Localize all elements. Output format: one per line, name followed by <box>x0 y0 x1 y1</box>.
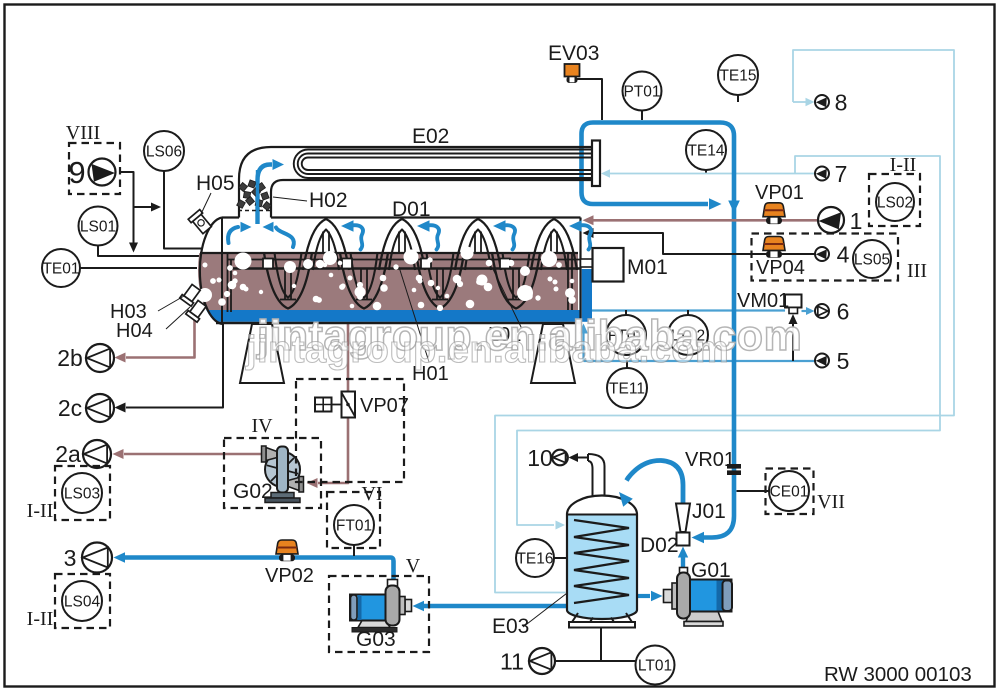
svg-text:11: 11 <box>500 649 524 675</box>
instrument TE15 <box>718 55 758 95</box>
ejector J01 cone <box>676 504 690 533</box>
svg-text:E03: E03 <box>492 615 529 638</box>
pump 1 <box>818 207 844 233</box>
svg-text:CE01: CE01 <box>770 484 809 501</box>
valve VP01 <box>763 203 785 224</box>
instrument TE14 <box>686 130 726 170</box>
svg-text:2a: 2a <box>55 441 81 467</box>
H02 spray feed line (blue) <box>256 170 259 224</box>
svg-text:I-II: I-II <box>890 154 917 176</box>
svg-text:H02: H02 <box>309 189 348 212</box>
wire VM01 drop line with up arrow <box>792 323 794 361</box>
vapor arrow to duct (left) <box>263 222 274 232</box>
wire cyan loop A (TE15/point8 circuit) <box>495 50 954 593</box>
instrument FT01 <box>334 505 374 545</box>
vessel D02 fill <box>567 515 637 620</box>
E02 tube sheet <box>592 141 600 187</box>
svg-text:7: 7 <box>835 161 848 187</box>
svg-text:E02: E02 <box>412 125 449 148</box>
pump G01 <box>664 568 733 627</box>
svg-text:M01: M01 <box>627 256 668 279</box>
svg-text:H04: H04 <box>116 320 153 342</box>
pipe G03 discharge to pump 3 via VP02/FT01 <box>125 558 394 581</box>
instrument LS04 <box>62 581 102 621</box>
wire jacket riser with up arrow <box>582 333 584 361</box>
arrowhead into J01 <box>692 532 705 543</box>
vessel D01 right end <box>579 218 581 324</box>
svg-text:IV: IV <box>251 415 273 437</box>
instrument LT01 <box>636 646 675 685</box>
pipe VP01 feed into vessel (brown) <box>592 219 818 222</box>
svg-text:VP04: VP04 <box>756 257 805 279</box>
wire pump 2c drain from vessel <box>126 324 223 408</box>
wire pump 11 to LT01 <box>555 660 635 662</box>
group VI box <box>327 492 380 548</box>
svg-text:D02: D02 <box>640 534 679 557</box>
svg-text:2b: 2b <box>57 345 83 371</box>
svg-text:LS05: LS05 <box>854 252 890 269</box>
svg-text:TE01: TE01 <box>42 261 79 278</box>
arrowhead down main pipe <box>728 201 740 214</box>
svg-text:I-II: I-II <box>27 500 54 522</box>
wire pump 9 (VIII) feed line <box>120 172 134 246</box>
valve EV03 <box>565 64 580 77</box>
point 8 <box>815 95 829 109</box>
screw shaft <box>228 267 581 270</box>
svg-text:VR01: VR01 <box>685 449 735 471</box>
wire PT01 stem <box>641 111 643 121</box>
svg-text:G02: G02 <box>233 480 273 503</box>
bubbles in slurry <box>235 253 252 270</box>
vessel D01 bottom edge <box>216 322 581 324</box>
wire FT02 stem <box>625 310 627 315</box>
wire TE15 stem <box>737 95 739 102</box>
svg-text:TE11: TE11 <box>609 381 645 398</box>
svg-text:6: 6 <box>837 299 850 325</box>
svg-text:8: 8 <box>835 90 848 116</box>
wire LS01 stem to vessel <box>98 246 200 257</box>
damper VM01 <box>785 295 802 308</box>
pump 2b <box>86 344 114 372</box>
wire cyan line to point 7 <box>609 173 815 175</box>
svg-text:LS01: LS01 <box>80 219 116 236</box>
svg-text:TE16: TE16 <box>516 551 553 568</box>
pipe vessel to pump 2b via H04 (brown) <box>126 310 195 358</box>
svg-text:4: 4 <box>837 242 850 268</box>
group VIII box <box>69 143 120 194</box>
point 4 <box>815 247 829 261</box>
instrument LT12 <box>668 315 708 355</box>
wire D02 vent to point 10 <box>573 457 588 459</box>
pipe E02 heating loop supply <box>593 123 734 538</box>
valve VP02 <box>276 540 298 561</box>
wire M01 control line into vessel <box>592 233 815 254</box>
group III box <box>752 234 899 281</box>
svg-text:G03: G03 <box>356 628 396 651</box>
motor M01 <box>593 248 624 282</box>
instrument LS05 <box>853 240 891 278</box>
instrument TE01 <box>42 249 80 287</box>
pipe G02 to pump 2a (brown) <box>124 453 261 456</box>
vapor arrow to duct (right) <box>241 222 252 232</box>
group I-II box (LS02) <box>869 174 920 226</box>
svg-text:VII: VII <box>817 491 845 513</box>
motor M01 shaft <box>581 259 593 267</box>
wire jacket outlet line (FT02/LT12 row top) <box>588 309 785 311</box>
svg-text:J01: J01 <box>692 500 726 523</box>
vessel D01 inner wall right <box>567 253 569 310</box>
svg-text:2c: 2c <box>58 395 82 421</box>
vessel D01 jacket right band <box>582 269 592 322</box>
vessel D01 body fill <box>198 253 578 310</box>
wire EV03 connection <box>575 79 602 120</box>
svg-text:VI: VI <box>361 483 382 505</box>
svg-text:LS02: LS02 <box>877 195 913 212</box>
group VII box <box>766 469 814 515</box>
screw bearing blocks <box>263 259 273 269</box>
instrument TE11 <box>607 368 647 408</box>
svg-text:5: 5 <box>837 348 850 374</box>
svg-text:1: 1 <box>850 208 863 234</box>
svg-text:9: 9 <box>68 155 85 190</box>
instrument LS06 <box>144 131 184 171</box>
svg-text:H05: H05 <box>196 172 235 195</box>
svg-text:RW 3000 00103: RW 3000 00103 <box>824 663 972 686</box>
svg-text:3: 3 <box>64 545 77 571</box>
vessel D01 liquid surface <box>200 252 578 254</box>
vessel D02 vent pipe <box>588 461 593 496</box>
LS03 box <box>55 466 110 520</box>
svg-text:III: III <box>907 260 927 282</box>
svg-text:VP07: VP07 <box>360 395 409 417</box>
nozzle H05 <box>188 210 213 235</box>
instrument LS02 <box>876 183 914 221</box>
VP07 box <box>296 379 404 482</box>
wire jacket line to point 5 <box>584 360 816 362</box>
wire LT12 stem <box>687 310 689 315</box>
wire cyan arrow to point 8 <box>793 101 806 103</box>
E02 U-tubes <box>294 150 592 179</box>
pipe vessel drain through VP07 to G02 (brown) <box>347 324 350 392</box>
pump 3 <box>82 543 112 573</box>
pump 9 <box>89 159 116 186</box>
instrument PT01 <box>623 72 662 111</box>
svg-text:I-II: I-II <box>27 608 54 630</box>
svg-text:LS03: LS03 <box>64 486 100 503</box>
vessel D02 dome <box>567 496 637 515</box>
pipe G01 discharge to J01 <box>681 557 685 568</box>
svg-text:G01: G01 <box>691 559 731 582</box>
wire TE14 stem <box>705 170 707 173</box>
vessel D01 jacket bottom band <box>206 310 580 322</box>
wire VM01 to point 6 <box>802 310 808 312</box>
pipe D02 recirculation loop to tank <box>627 460 684 505</box>
group IV box <box>224 438 321 508</box>
restrictor VR01 <box>727 464 741 469</box>
vapor riser arrow into E02 duct <box>258 165 273 225</box>
leader lines <box>201 193 211 214</box>
svg-text:LS06: LS06 <box>146 144 182 161</box>
valve VP07 <box>342 392 356 418</box>
pipe E03 coil to G03 suction <box>421 604 566 609</box>
point 6 <box>815 304 829 318</box>
svg-text:VP01: VP01 <box>755 182 804 204</box>
cyan arrow into D02 <box>556 521 566 530</box>
vessel D01 left cap outline <box>200 218 222 325</box>
H02 spray nozzle cluster <box>237 180 272 211</box>
valve VP04 <box>763 237 785 258</box>
instrument FT02 <box>606 315 646 355</box>
point 7 <box>815 167 829 181</box>
nozzle H04 <box>186 299 208 322</box>
vessel D01 top edge <box>222 216 239 218</box>
point 5 <box>815 354 829 368</box>
svg-text:10: 10 <box>527 445 553 471</box>
pump G02 <box>262 446 304 503</box>
svg-text:VIII: VIII <box>66 122 100 144</box>
vapor flow arrows in vessel freeboard <box>351 225 363 249</box>
wire TE11 stem <box>626 361 628 369</box>
svg-text:LT01: LT01 <box>638 658 672 675</box>
instrument TE16 <box>516 539 554 577</box>
instrument LS03 <box>62 473 102 513</box>
svg-text:TE14: TE14 <box>687 143 724 160</box>
point 10 <box>552 450 568 466</box>
vessel D02 outline <box>567 515 637 620</box>
wire TE01 stem to vessel <box>80 267 197 269</box>
svg-text:D01: D01 <box>392 198 431 221</box>
vessel D01 tangent line <box>221 218 223 325</box>
svg-text:PT01: PT01 <box>623 84 660 101</box>
pump G03 <box>350 580 412 633</box>
LS04 box <box>55 574 110 628</box>
svg-text:jintagroup.en.alibaba.com: jintagroup.en.alibaba.com <box>245 329 729 371</box>
instrument CE01 <box>769 471 809 511</box>
arrowhead return joins main <box>709 198 722 210</box>
screw conveyor flights <box>303 219 349 270</box>
pump 2c <box>86 394 114 422</box>
svg-text:VM01: VM01 <box>737 290 789 312</box>
pipe D02 to G01 suction <box>637 594 650 598</box>
vessel D01 inner wall left <box>227 253 229 312</box>
nozzle H03 <box>180 283 202 306</box>
wire LS06 stem to vessel <box>164 171 202 249</box>
wire D02 base to LT01 line <box>600 627 602 661</box>
wire cyan loop B (point7 circuit) <box>517 156 940 525</box>
svg-text:EV03: EV03 <box>548 42 599 65</box>
svg-text:FT01: FT01 <box>336 518 372 535</box>
instrument LS01 <box>79 207 118 246</box>
heating coil E03 <box>574 520 629 603</box>
svg-text:LS04: LS04 <box>64 594 101 611</box>
E02 vapor duct outline <box>239 147 592 218</box>
svg-text:V: V <box>406 555 421 577</box>
group V box <box>329 576 429 652</box>
vessel support leg right <box>531 324 575 383</box>
svg-text:TE15: TE15 <box>719 68 756 85</box>
vessel D02 legs <box>572 613 578 622</box>
wire CE01 connection <box>737 490 770 492</box>
pump 2a <box>83 440 111 468</box>
svg-text:VP02: VP02 <box>265 565 314 587</box>
vessel support leg left <box>240 324 284 383</box>
pump 11 <box>529 648 555 674</box>
ejector J01 mixing box <box>677 533 690 546</box>
pipe E02 heating loop return <box>582 123 709 205</box>
vessel D02 base plate <box>569 622 635 628</box>
wire FT01 stem <box>353 545 355 556</box>
wire TE16 stem <box>554 557 567 559</box>
